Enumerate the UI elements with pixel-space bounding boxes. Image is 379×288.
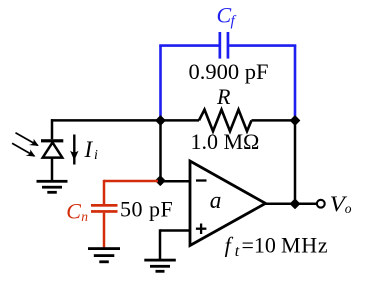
pin plus — [196, 224, 207, 235]
wire red Cn top horizontal — [104, 180, 158, 183]
svg-text:=10: =10 — [242, 233, 276, 258]
wire main horizontal left — [51, 119, 199, 122]
svg-text:i: i — [94, 148, 98, 163]
wire output horizontal — [265, 203, 317, 206]
node A junction inverting net top — [156, 116, 165, 125]
label Cn — [66, 198, 88, 223]
wire inverting input horizontal — [161, 180, 191, 183]
svg-text:MHz: MHz — [281, 233, 328, 258]
svg-text:t: t — [235, 243, 240, 260]
svg-text:50 pF: 50 pF — [120, 197, 173, 222]
wire blue feedback top left — [159, 44, 218, 47]
pin minus — [196, 179, 207, 181]
capacitor Cf — [219, 32, 230, 59]
label Cf — [217, 3, 237, 30]
wire output right vertical — [294, 120, 297, 203]
wire red Cn upper vertical — [103, 180, 106, 204]
node D junction output — [290, 199, 299, 208]
svg-text:C: C — [66, 198, 81, 223]
svg-text:o: o — [345, 201, 352, 216]
node B junction resistor right — [290, 116, 299, 125]
ground noninverting — [144, 259, 176, 273]
wire noninverting vertical — [159, 229, 162, 259]
svg-text:R: R — [216, 84, 231, 109]
svg-text:n: n — [81, 209, 88, 224]
wire red Cn lower vertical — [103, 213, 106, 248]
svg-text:0.900 pF: 0.900 pF — [189, 59, 269, 84]
wire inverting vertical — [159, 120, 162, 181]
capacitor Cn — [91, 204, 118, 213]
light arrow 2 — [12, 143, 35, 156]
ground photodiode — [37, 180, 68, 194]
op-amp U1 — [190, 161, 266, 246]
label Ii — [84, 137, 99, 163]
svg-text:C: C — [217, 3, 232, 28]
wire blue feedback top right — [229, 44, 296, 47]
svg-text:I: I — [84, 137, 94, 162]
wire noninverting input horizontal — [160, 229, 190, 232]
label Vo — [330, 191, 352, 216]
ground Cn — [88, 247, 120, 263]
svg-text:1.0 MΩ: 1.0 MΩ — [191, 129, 260, 154]
light arrow 1 — [16, 133, 39, 146]
wire blue feedback left vertical — [159, 46, 162, 118]
photodiode D1 — [41, 119, 63, 181]
terminal Vo open circle — [317, 200, 325, 208]
wire blue feedback right vertical — [294, 46, 297, 118]
wire main horizontal right — [252, 119, 296, 122]
resistor R — [199, 110, 252, 132]
node C junction inverting input — [156, 176, 165, 185]
current arrow Ii — [70, 135, 78, 165]
svg-text:a: a — [210, 188, 222, 214]
label ft = 10 MHz — [225, 233, 329, 261]
